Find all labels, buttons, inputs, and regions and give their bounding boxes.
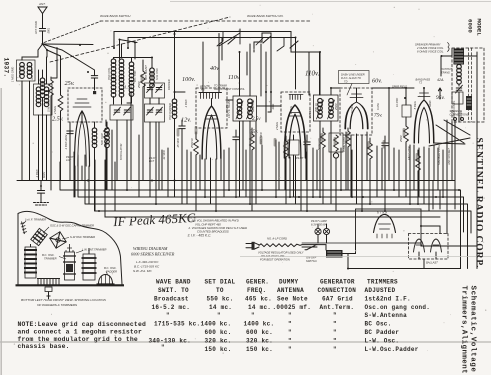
svg-text:OUTPUT: OUTPUT <box>441 67 452 71</box>
svg-text:6 7 8 9: 6 7 8 9 <box>377 211 387 215</box>
bottom bus wire G4 <box>85 155 468 269</box>
svg-text:S-W.Antenna: S-W.Antenna <box>365 312 408 319</box>
top bus wire B1 <box>114 32 320 96</box>
wire IF comb drops right <box>243 52 443 204</box>
svg-text:B.C. OSC.: B.C. OSC. <box>42 253 55 257</box>
svg-text:.1 MFD 200V: .1 MFD 200V <box>64 134 68 150</box>
tube U1 6A7 arch <box>44 45 98 167</box>
svg-text:2.5v: 2.5v <box>252 117 261 122</box>
svg-text:ADJUSTMENT CONTROL: ADJUSTMENT CONTROL <box>213 87 245 91</box>
svg-text:AND SOCKET: AND SOCKET <box>447 148 451 166</box>
wire switch feed drops <box>203 34 309 97</box>
svg-text:OF PADDERS & TRIMMERS: OF PADDERS & TRIMMERS <box>37 303 78 307</box>
svg-text:ADJUSTED: ADJUSTED <box>365 287 396 294</box>
svg-text:": " <box>288 346 292 353</box>
driver transformer T3d <box>466 96 472 110</box>
svg-text:1 MEG GRID: 1 MEG GRID <box>11 67 15 82</box>
svg-text:40v.: 40v. <box>210 65 220 72</box>
svg-text:.5 MEG: .5 MEG <box>413 101 417 110</box>
svg-text:SET DIAL: SET DIAL <box>205 279 236 286</box>
tube U1 6A7 dashed envelope <box>68 88 102 122</box>
svg-text:": " <box>333 337 337 344</box>
IF transformer T2 <box>314 52 339 204</box>
svg-text:AC HTD: AC HTD <box>199 84 210 88</box>
wire power bottom <box>348 243 461 269</box>
wire speaker diag pair <box>436 120 470 143</box>
svg-text:SPEAKER PLUG: SPEAKER PLUG <box>437 145 441 165</box>
sw osc trimmer tilted <box>50 232 67 249</box>
svg-text:B.C.-1715-535 KC: B.C.-1715-535 KC <box>134 265 160 269</box>
tube U4 pin wires <box>346 132 367 211</box>
svg-text:FREQ.: FREQ. <box>247 287 266 294</box>
svg-text:PADDER: PADDER <box>106 270 117 274</box>
tube U2 pin wires <box>200 155 221 211</box>
svg-text:OSC PADDER: OSC PADDER <box>168 103 172 120</box>
top bus wire B2 <box>128 38 296 90</box>
resistor R2 <box>104 120 109 190</box>
box C8 paper cap <box>288 135 299 197</box>
resistor R3 <box>141 60 146 181</box>
resistor R13 <box>368 138 373 204</box>
resistor R5 <box>404 117 409 197</box>
svg-text:TO TRIMM: TO TRIMM <box>214 84 228 88</box>
svg-text:TRANS: TRANS <box>441 70 450 74</box>
wire IF comb drops left <box>70 92 229 204</box>
svg-text:SWIT. TO: SWIT. TO <box>158 287 189 294</box>
wire 95v arrow <box>438 88 441 99</box>
svg-text:": " <box>333 329 337 336</box>
svg-text:MODEL: MODEL <box>476 19 483 37</box>
svg-text:Broadcast: Broadcast <box>154 296 189 303</box>
svg-text:IF Peak 465KC: IF Peak 465KC <box>112 211 196 229</box>
chassis outline <box>18 211 122 284</box>
svg-text:chassis base.: chassis base. <box>18 343 70 350</box>
speaker callout brace <box>448 43 450 52</box>
chassis base line <box>16 284 125 286</box>
svg-text:": " <box>333 346 337 353</box>
svg-text:3. I.F. - 465 K.C.: 3. I.F. - 465 K.C. <box>188 233 212 237</box>
svg-text:B.C. OSC: B.C. OSC <box>133 70 137 82</box>
power rect box <box>356 209 422 243</box>
svg-text:DASH LINE UNDER: DASH LINE UNDER <box>341 73 365 77</box>
svg-text:GENERATOR: GENERATOR <box>320 279 355 286</box>
wire ballast links <box>419 226 477 269</box>
svg-text:1400 kc.: 1400 kc. <box>201 320 232 327</box>
resistor R14 <box>416 150 421 204</box>
tube U5 pin wires <box>414 145 434 211</box>
svg-text:Schematic,Voltage: Schematic,Voltage <box>469 286 477 373</box>
svg-text:TD: TD <box>344 80 348 84</box>
svg-text:1 MEG: 1 MEG <box>289 106 293 114</box>
svg-text:DUMMY: DUMMY <box>279 279 298 286</box>
svg-text:150 kc.: 150 kc. <box>246 346 273 353</box>
svg-text:600 kc.: 600 kc. <box>205 329 232 336</box>
alignment table <box>149 279 431 354</box>
svg-text:VOLTAGE REGULATOR USED ONLY: VOLTAGE REGULATOR USED ONLY <box>258 251 304 255</box>
pilot lamp P1 <box>315 228 321 234</box>
svg-text:95v.: 95v. <box>436 95 445 101</box>
wiring diagram note <box>131 246 175 257</box>
wire stair x105 <box>105 160 440 217</box>
resistor R1 <box>47 50 63 181</box>
svg-text:ANT COND: ANT COND <box>35 21 38 35</box>
oscillator coil L3 <box>111 58 116 105</box>
svg-text:.0001: .0001 <box>271 103 275 110</box>
svg-text:320 kc.: 320 kc. <box>246 337 273 344</box>
oscillator coil L4 <box>119 44 124 104</box>
tube U3 75 dashed envelope <box>281 92 310 132</box>
svg-text:25v.: 25v. <box>65 80 75 87</box>
capacitor C7 <box>382 136 388 211</box>
svg-text:1400 kc.: 1400 kc. <box>244 320 275 327</box>
svg-text:150 kc.: 150 kc. <box>205 346 232 353</box>
svg-text:": " <box>166 312 170 319</box>
svg-text:2 MEG: 2 MEG <box>275 122 279 131</box>
IF transformer T1 <box>233 44 257 204</box>
svg-text:See Note: See Note <box>277 296 308 303</box>
potentiometer R7 <box>329 133 343 211</box>
wire U5 plate to speaker <box>429 56 470 146</box>
svg-text:.02 MFD: .02 MFD <box>350 104 354 114</box>
svg-text:WAVE BAND SWITCH NO.: WAVE BAND SWITCH NO. <box>247 14 284 18</box>
svg-text:250M: 250M <box>137 81 141 89</box>
tube U2 6D6 dashed envelope <box>196 88 227 128</box>
svg-text:ON 110 VOLT LINE: ON 110 VOLT LINE <box>261 254 285 258</box>
AC plug <box>246 242 259 250</box>
resistor R11 <box>250 128 255 211</box>
speaker dashed enclosure <box>452 48 484 122</box>
svg-text:PILOT: PILOT <box>296 156 304 160</box>
resistor R12 <box>284 136 289 204</box>
svg-text:S.W. OSC: S.W. OSC <box>155 68 159 80</box>
svg-text:42A.: 42A. <box>437 78 444 82</box>
svg-text:16-5.2 mc.: 16-5.2 mc. <box>152 304 191 311</box>
wire dashed band-switch top run <box>100 20 312 22</box>
svg-text:50M OHM: 50M OHM <box>100 132 104 145</box>
svg-text:LGT: LGT <box>66 158 71 162</box>
svg-text:LGT: LGT <box>149 159 154 163</box>
screw trimmer <box>21 222 27 235</box>
speaker field coil <box>454 49 465 65</box>
svg-text:NOTE:Leave grid cap disconnect: NOTE:Leave grid cap disconnected <box>18 321 146 328</box>
svg-text:1937.: 1937. <box>3 58 10 78</box>
svg-text:4.5: 4.5 <box>201 87 205 91</box>
svg-text:6000: 6000 <box>467 19 474 33</box>
dashed-line callout text <box>341 73 365 84</box>
switch steps SW3 <box>217 29 298 92</box>
svg-text:14 mc.: 14 mc. <box>209 304 232 311</box>
svg-text:500M VOL: 500M VOL <box>317 137 321 150</box>
component body smudges <box>141 72 419 162</box>
chassis caption <box>21 298 107 307</box>
wire lamp feed <box>302 242 356 244</box>
svg-text:": " <box>217 312 221 319</box>
svg-text:": " <box>288 320 292 327</box>
wire speaker socket verticals <box>447 120 455 215</box>
svg-text:.00025 mf.: .00025 mf. <box>273 304 312 311</box>
RF coil L2 box <box>34 57 53 181</box>
svg-text:ANT PRI: ANT PRI <box>18 67 22 79</box>
svg-text:": " <box>288 329 292 336</box>
svg-text:12v.: 12v. <box>181 117 191 124</box>
wire dashed antenna diagonal <box>44 22 100 43</box>
svg-text:L.F.-340-130 KC: L.F.-340-130 KC <box>136 260 159 264</box>
svg-text:2.5v.: 2.5v. <box>52 116 64 123</box>
svg-text:6A7 Grid: 6A7 Grid <box>322 296 353 303</box>
wire dashed band-switch diagonal <box>50 17 230 62</box>
svg-text:100v.: 100v. <box>182 76 195 83</box>
chassis bypass C4 <box>34 181 49 206</box>
svg-text:and connect a 1 megohm resisto: and connect a 1 megohm resistor <box>18 329 142 336</box>
coil L8 left <box>40 70 45 181</box>
svg-text:GRID: GRID <box>428 100 432 107</box>
svg-text:TRANS: TRANS <box>459 111 463 120</box>
wire U4 plate bus <box>331 88 424 100</box>
svg-text:2ND I.F.: 2ND I.F. <box>314 102 318 113</box>
coil L10 <box>105 122 110 190</box>
svg-text:GENER.: GENER. <box>246 279 269 286</box>
capacitor ant series <box>39 29 45 45</box>
wire coil top bus <box>114 58 153 69</box>
svg-text:SWITCH: SWITCH <box>306 259 317 263</box>
svg-text:BALLAST: BALLAST <box>426 261 438 265</box>
svg-text:OSC COIL: OSC COIL <box>107 67 111 80</box>
trimmer box TB1 <box>110 105 133 190</box>
tube U3 75 bell <box>285 95 306 159</box>
svg-text:SPEAKER PRIMARY: SPEAKER PRIMARY <box>415 43 441 47</box>
speaker terminal circles <box>452 92 464 121</box>
wire lamps <box>318 224 327 243</box>
svg-text:1st&2nd I.F.: 1st&2nd I.F. <box>365 296 411 303</box>
svg-text:FIELD 1800: FIELD 1800 <box>407 146 411 160</box>
switch comb SW2 <box>199 93 222 99</box>
svg-text:550 kc.: 550 kc. <box>207 296 234 303</box>
tiny horizontal labels under tubes <box>66 155 304 163</box>
tube U4 6D6 dashed envelope <box>340 88 372 135</box>
svg-text:B.C. OSC.: B.C. OSC. <box>104 266 117 270</box>
tube U5 42 output bell <box>414 88 434 143</box>
on-off switch S2 <box>305 245 317 250</box>
svg-text:ANTENNA: ANTENNA <box>277 287 304 294</box>
svg-text:Trimmers,Alignment: Trimmers,Alignment <box>460 286 468 375</box>
svg-text:BAND PASS: BAND PASS <box>416 78 431 82</box>
coil L6 <box>150 68 155 97</box>
svg-text:110v: 110v <box>228 74 240 81</box>
bottom bus wire G5 <box>95 160 471 233</box>
capacitor C5 <box>233 130 239 197</box>
wire osc grid <box>52 48 57 79</box>
svg-text:ANT SEC: ANT SEC <box>30 69 34 81</box>
svg-text:6000 SERIES RECEIVER: 6000 SERIES RECEIVER <box>131 252 175 257</box>
coil L5 <box>127 58 134 104</box>
tube U2 6D6 bell <box>202 99 221 160</box>
speaker callout <box>392 43 469 117</box>
switch S1 arm <box>38 44 47 57</box>
mounting bolt <box>45 287 52 299</box>
svg-text:1ST I.F. TRANS: 1ST I.F. TRANS <box>227 99 231 118</box>
svg-text:CONNECTION: CONNECTION <box>318 287 357 294</box>
svg-text:600 kc.: 600 kc. <box>246 329 273 336</box>
svg-text:ANT SHUNT: ANT SHUNT <box>144 65 148 81</box>
rectifier tube U6 <box>374 214 396 238</box>
svg-text:14 mc.: 14 mc. <box>248 304 271 311</box>
resistor R4 <box>194 132 199 211</box>
svg-text:250M: 250M <box>334 103 338 111</box>
svg-text:S-W OSC.TRIMMER: S-W OSC.TRIMMER <box>70 235 95 239</box>
svg-text:L-W. Osc.: L-W. Osc. <box>365 337 400 344</box>
svg-text:L-W.Osc.Padder: L-W.Osc.Padder <box>365 346 419 353</box>
power labels <box>258 211 438 265</box>
svg-text:2 OHMS VOICE COIL: 2 OHMS VOICE COIL <box>416 46 444 50</box>
speaker wires <box>441 49 477 269</box>
side notes list <box>188 215 248 237</box>
svg-text:OSC.& S-W OSC.CAPAC.TRIMMER: OSC.& S-W OSC.CAPAC.TRIMMER <box>50 224 94 228</box>
top small labels <box>35 2 284 91</box>
svg-text:": " <box>288 312 292 319</box>
svg-text:S.W.-P.A. MC: S.W.-P.A. MC <box>133 269 153 273</box>
svg-text:PILOT LAMP: PILOT LAMP <box>311 219 327 223</box>
svg-text:1715-535 kc.: 1715-535 kc. <box>154 320 200 327</box>
resistor R10 <box>49 77 54 190</box>
svg-text:BC Padder: BC Padder <box>365 329 400 336</box>
svg-text:2 MEG: 2 MEG <box>53 106 57 115</box>
terminal comb <box>37 279 60 285</box>
svg-text:NO. A-LP CORD: NO. A-LP CORD <box>267 237 287 241</box>
svg-text:340-130 kc.: 340-130 kc. <box>149 337 191 344</box>
tiny rotated component labels <box>11 65 464 178</box>
svg-text:SENTINEL RADIO CORP.: SENTINEL RADIO CORP. <box>474 138 485 269</box>
svg-text:8 OHMS VOICE COIL: 8 OHMS VOICE COIL <box>417 50 444 54</box>
svg-text:CATH: CATH <box>376 103 380 110</box>
svg-text:GRID CAP: GRID CAP <box>251 99 255 112</box>
svg-text:ON-OFF: ON-OFF <box>306 256 317 260</box>
svg-text:.1 MFD: .1 MFD <box>35 169 39 178</box>
gang trimmer tilted <box>31 228 47 245</box>
callout box dash-line note <box>339 71 370 96</box>
svg-text:R.F.C. ALIGN TO: R.F.C. ALIGN TO <box>341 76 361 80</box>
trimmer box TB2 <box>145 83 165 104</box>
wire top link B <box>120 40 138 60</box>
antenna <box>38 7 47 28</box>
bottom bus wire G3 <box>78 155 464 232</box>
svg-text:BOTTOM LEFT HAND FRONT VIEW- S: BOTTOM LEFT HAND FRONT VIEW- SHOWING LOC… <box>21 298 107 302</box>
svg-text:.05 MFD: .05 MFD <box>176 138 180 148</box>
resistor R8 <box>346 128 351 190</box>
svg-text:1.5v: 1.5v <box>124 85 133 90</box>
svg-text:": " <box>251 312 255 319</box>
svg-text:.1 MFD: .1 MFD <box>184 99 188 108</box>
power transformer T4p <box>317 245 348 269</box>
padder box TB3 <box>145 104 165 197</box>
capacitor box C9 <box>402 88 411 117</box>
svg-text:L.W. ANT.TRIMMER: L.W. ANT.TRIMMER <box>82 248 107 252</box>
antenna coil L1 box <box>17 57 39 181</box>
svg-text:DRIVER COUPL: DRIVER COUPL <box>452 100 456 120</box>
wire right rails <box>433 181 447 234</box>
svg-text:320 kc.: 320 kc. <box>205 337 232 344</box>
tube U4 bell <box>345 88 368 129</box>
svg-text:600V: 600V <box>42 172 46 178</box>
IF can stack <box>24 244 37 278</box>
svg-text:from the modulator grid to the: from the modulator grid to the <box>18 336 138 343</box>
bottom bus wire G2 <box>60 162 461 269</box>
wire top link A <box>43 43 94 46</box>
svg-text:60v.: 60v. <box>372 78 382 85</box>
wire link T3 region <box>226 92 281 112</box>
svg-text:ANT.: ANT. <box>38 2 46 6</box>
svg-text:250M W: 250M W <box>190 138 194 149</box>
resistor R6 volume control <box>321 128 326 204</box>
svg-text:": " <box>333 320 337 327</box>
svg-text:2ND I.F.: 2ND I.F. <box>308 108 312 119</box>
svg-text:WIRING DIAGRAM: WIRING DIAGRAM <box>133 246 168 251</box>
padder stack right <box>82 248 97 280</box>
voltage labels <box>52 65 445 135</box>
svg-text:WAVE BAND: WAVE BAND <box>156 279 191 286</box>
svg-text:SPKR FIELD: SPKR FIELD <box>392 85 407 89</box>
svg-text:MODULATOR: MODULATOR <box>119 144 123 160</box>
svg-text:110v.: 110v. <box>305 70 320 78</box>
extra top link wires <box>40 40 470 234</box>
svg-text:": " <box>288 337 292 344</box>
capacitor C2 <box>67 124 73 181</box>
line cord resistor R9 <box>259 244 317 247</box>
chassis drawing labels <box>25 218 117 274</box>
svg-text:Ant.Term.: Ant.Term. <box>320 304 355 311</box>
svg-text:Osc.on gang cond.: Osc.on gang cond. <box>365 304 431 311</box>
svg-text:": " <box>161 344 165 351</box>
coil L9 <box>92 122 97 211</box>
svg-text:250M: 250M <box>399 135 403 143</box>
bottom bus wire G1 <box>17 181 455 210</box>
ballast dashed box <box>409 234 449 260</box>
capacitor C3 <box>179 120 185 204</box>
svg-text:TRIMMERS: TRIMMERS <box>367 279 398 286</box>
svg-text:S.W. ANT: S.W. ANT <box>47 100 51 112</box>
svg-text:BC Osc.: BC Osc. <box>365 320 392 327</box>
capacitor C6 <box>304 135 310 211</box>
svg-text:75v.: 75v. <box>374 113 382 119</box>
svg-text:TRIMMER: TRIMMER <box>44 257 57 261</box>
svg-text:1st I.F. TRIMMER: 1st I.F. TRIMMER <box>25 218 46 222</box>
osc trimmer cylinder <box>63 244 76 280</box>
svg-text:": " <box>333 312 337 319</box>
speaker output coil <box>456 64 463 122</box>
dome padder <box>97 275 115 285</box>
svg-text:PADDER: PADDER <box>167 79 171 90</box>
tube U3 pin wires <box>285 152 306 211</box>
svg-text:10 MFD: 10 MFD <box>395 98 399 107</box>
coil L7 <box>172 31 185 197</box>
svg-text:465 kc.: 465 kc. <box>245 296 272 303</box>
svg-text:FOR BEST OPERATION: FOR BEST OPERATION <box>260 258 290 262</box>
svg-text:6.3V-150 MA: 6.3V-150 MA <box>311 223 327 227</box>
note paragraph <box>18 321 146 350</box>
pilot lamp P2 <box>323 228 329 234</box>
svg-text:.01 MFD: .01 MFD <box>162 150 166 160</box>
tube U1 pin wires <box>70 111 89 204</box>
wire stair x115 <box>114 162 116 211</box>
svg-text:TO: TO <box>216 287 224 294</box>
svg-text:TONE CONT: TONE CONT <box>342 136 346 152</box>
scan artifact lines (decorative) <box>0 341 491 343</box>
pointer arrows <box>23 221 108 275</box>
svg-text:WAVE BAND SWITCH: WAVE BAND SWITCH <box>100 14 131 18</box>
svg-text:.0001: .0001 <box>48 27 51 34</box>
